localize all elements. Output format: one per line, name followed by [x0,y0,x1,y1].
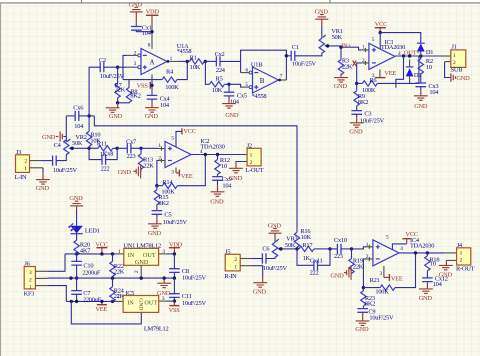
ground GND below Cx9 [210,192,224,206]
wire node to IC2 pin1 [141,147,159,149]
wire J3 pin1 to ground [42,168,44,173]
ground port GND beside VR2 [42,131,66,141]
connector J1 [451,43,466,73]
svg-text:R4: R4 [166,68,174,75]
svg-text:GND: GND [456,75,470,82]
resistor R23 [361,288,376,309]
svg-text:2: 2 [453,60,456,66]
svg-text:10uF/25V: 10uF/25V [369,315,394,322]
node feedback junction IC2 [155,184,158,187]
svg-text:IC5: IC5 [125,290,134,297]
pin 4 IC4 output [399,252,444,254]
ground GND above LED1 [69,195,83,211]
ground GND below Cx12 [419,289,433,302]
svg-text:GND: GND [253,289,267,296]
node C7 VEE junction [75,300,78,303]
node C1 junction [285,54,288,57]
node UN1 gnd junction [140,276,143,279]
wire C8 to mid rail [173,272,175,278]
node Cx6 junction [87,114,90,117]
wire Cx9 to ground [217,180,219,185]
svg-text:3: 3 [372,73,375,79]
pin Cx1 top [135,22,137,26]
svg-text:R5: R5 [216,75,223,82]
svg-text:Cx2: Cx2 [215,51,225,58]
resistor R4 feedback [123,61,187,91]
svg-text:GND: GND [138,298,144,310]
svg-text:22K: 22K [143,162,154,169]
capacitor C1 [286,44,316,68]
wire long run to right channel [94,116,297,232]
pin 1 J6 [35,285,47,287]
resistor R8 [118,80,141,103]
ground GND below J5 [253,283,267,296]
resistor R3 [338,47,352,77]
wire J6 pin2 mid rail [48,277,175,279]
resistor R24 [110,278,125,302]
wire output to J2 [219,154,243,156]
wire pin2 to feedback node [363,259,366,288]
svg-text:8K2: 8K2 [365,301,375,308]
svg-text:1: 1 [118,249,121,255]
svg-text:3: 3 [171,169,174,175]
wire VR2 wiper to input row [71,147,74,150]
power port VEE IC4 [384,274,403,282]
op-amp IC1 [362,39,405,70]
resistor R11 [89,141,117,159]
connector J5 [224,249,240,280]
resistor R9 [354,83,368,110]
svg-text:R14: R14 [162,179,173,186]
svg-text:J5: J5 [225,249,230,256]
svg-text:VEE: VEE [95,306,107,313]
wire C2 right to node [104,66,118,68]
capacitor C6 [252,246,288,272]
svg-text:2: 2 [234,257,237,263]
svg-text:KF3: KF3 [24,290,35,297]
svg-text:10: 10 [221,163,227,170]
capacitor C10 [71,254,101,277]
svg-text:GND: GND [109,113,123,120]
wire VR1 wiper to IN+ row [326,44,329,47]
capacitor C11 [169,278,206,307]
ground GND below C9 [355,321,369,333]
svg-text:10uF/25V: 10uF/25V [182,300,207,307]
pin 5 IC4 [392,244,406,250]
svg-text:C4: C4 [54,142,62,149]
sheet border top [0,2,480,4]
wire Cx4 to ground [151,99,153,102]
ground GND mid rail [157,278,171,297]
pin 6 U1B [241,72,250,74]
pin 2 IC5 [116,300,123,302]
svg-text:22K: 22K [115,87,126,94]
svg-text:A: A [150,58,155,66]
svg-text:Cx11: Cx11 [310,258,323,265]
pin 1 IC2 [159,147,166,151]
potentiometer VR3 [272,236,297,258]
ground GND above Cx1 [129,2,143,23]
svg-text:D1: D1 [426,49,433,56]
svg-text:1: 1 [250,152,253,158]
node VCC rail junction [379,31,382,34]
pin 3 IC1 [379,69,381,75]
svg-text:10: 10 [430,261,436,268]
svg-text:2: 2 [134,270,140,273]
pin 2 UN1 [140,265,142,278]
node R5/Cx5 junction [227,83,230,86]
power port VCC IC2 [182,128,196,135]
capacitor C8 [169,254,206,282]
svg-text:104: 104 [230,99,240,106]
ground GND below R7 [106,103,123,120]
svg-text:22K: 22K [342,63,353,70]
wire J4 pin2 to ground [445,259,447,262]
pin 5 IC1 [379,33,381,50]
svg-text:GND: GND [355,326,369,333]
pin 2 J4 [446,259,456,261]
capacitor Cx3 [416,83,440,96]
sheet zone tick marks [82,0,331,3]
wire Cx12 to ground [426,282,428,283]
svg-text:5: 5 [171,136,174,142]
op-amp U1A [134,43,192,75]
wire output to VEE loop [396,56,404,88]
svg-text:L-IN: L-IN [15,174,27,181]
svg-text:GND: GND [414,103,428,110]
svg-text:C3: C3 [364,111,371,118]
wire GND to VR1 top [321,26,323,34]
capacitor C5 [152,211,188,226]
node R16/R17 junction [295,247,298,250]
svg-text:10uF/25V: 10uF/25V [100,73,125,80]
capacitor Cx6 [66,104,94,130]
svg-text:2: 2 [460,258,463,264]
node R17/Cx11 junction [328,247,331,250]
svg-text:10uF/25V: 10uF/25V [292,61,317,68]
wire Cx1 bottom to VDD stem [136,30,152,32]
wire C6 to VR3 [266,257,275,258]
svg-text:10K: 10K [301,234,312,241]
power port VEE IC2 [176,170,193,181]
capacitor Cx1 [131,24,152,36]
potentiometer VR1 [319,28,343,53]
svg-text:LM79L12: LM79L12 [144,326,169,333]
wire pin2 to feedback node [357,63,362,84]
resistor R10 [86,116,101,148]
wire GND to LED1 [76,211,78,226]
svg-text:10: 10 [426,64,432,71]
svg-text:VCC: VCC [405,231,417,238]
svg-text:22K: 22K [353,263,364,270]
connector J2 [245,143,263,174]
wire C1 to VR1 [295,53,322,56]
svg-text:Cx8: Cx8 [103,150,113,157]
wire Cx5 to ground [228,96,230,98]
capacitor C4 [42,142,78,174]
pin 1 J1 [442,55,451,57]
node VCC port junction [100,252,103,255]
svg-text:OUT: OUT [144,299,157,306]
LED LED1 [68,223,100,234]
pin 3 U1A [127,66,138,68]
svg-text:OUT: OUT [143,252,156,259]
node VEE port junction [100,300,103,303]
svg-text:10uF/25V: 10uF/25V [360,118,385,125]
svg-text:100K: 100K [375,288,389,295]
connector J3 [15,149,30,181]
node output junctions IC4 [414,251,417,254]
svg-text:VCC: VCC [183,128,195,135]
svg-text:104: 104 [429,89,439,96]
pin 8 U1A [151,23,153,49]
wire C10 to mid rail [76,265,78,278]
pin 2 J1 [445,61,451,63]
svg-text:B: B [260,77,265,85]
wire VEE drop to IC5 gnd pin [71,301,141,324]
svg-text:3: 3 [29,270,32,276]
pin 3 IC4 [383,266,385,278]
svg-text:GND: GND [419,295,433,302]
svg-text:IN+: IN+ [341,42,351,49]
svg-text:J6: J6 [24,261,29,268]
connector J6 [24,261,36,298]
wire U1B feedback loop [241,50,287,80]
pin 1 J5 [240,265,251,267]
node R11/Cx8 junction [116,147,119,150]
node R24 VEE row junction [111,300,114,303]
svg-text:10K: 10K [212,87,223,94]
ground GND below J2 pin2 [229,168,243,182]
op-amp IC4 [366,237,435,266]
wire IC5 out to VSS node [167,300,174,302]
svg-text:8: 8 [148,42,151,48]
svg-text:104: 104 [160,102,170,109]
pin 2 J6 [35,277,47,279]
svg-text:GND: GND [118,169,132,176]
sheet border left [0,3,2,356]
svg-text:104: 104 [74,123,84,130]
svg-text:D2: D2 [414,72,421,79]
svg-text:R-OUT: R-OUT [456,265,475,272]
svg-text:TDA2030: TDA2030 [200,143,224,150]
node Cx7/R13 junction [139,147,142,150]
resistor R14 [157,155,205,196]
svg-text:GND: GND [229,175,243,182]
pin 7 U1B output [278,79,281,82]
power port VCC [375,21,387,32]
capacitor Cx8 parallel loop [89,148,117,172]
svg-text:U1B: U1B [251,61,262,68]
svg-text:J1: J1 [451,43,456,50]
svg-text:SUB: SUB [451,66,463,73]
svg-text:4: 4 [398,51,401,57]
resistor R19 [349,249,364,274]
svg-text:VSS: VSS [169,307,181,314]
resistor R21 [363,253,415,296]
wire J6 pin1 to VEE row [48,286,67,302]
svg-text:GND: GND [148,230,162,237]
power port VCC IC4 [402,231,417,244]
svg-text:8K2: 8K2 [130,93,140,100]
ground GND below J3 [36,180,50,193]
wire J5 pin1 to ground [252,266,263,277]
svg-text:10uF/25V: 10uF/25V [263,265,288,272]
ground GND below C3 [349,123,363,136]
pin 2 IC4 [366,257,373,261]
svg-text:1: 1 [234,265,237,271]
svg-text:50K: 50K [285,242,296,249]
wire VCC row [65,253,116,255]
op-amp U1B [245,61,278,100]
resistor R22 [110,252,125,278]
ground port GND beside R19 [330,265,351,280]
wire output to J1 [425,55,442,57]
svg-text:J3: J3 [16,149,21,156]
wire Cx2 to U1B input column [220,60,241,62]
op-amp IC2 [158,138,224,167]
ground GND below Cx3 [414,96,428,110]
ground GND below Cx4 [145,108,159,120]
resistor R20 [74,234,91,256]
diode D2 [406,60,421,84]
svg-text:22K: 22K [114,269,125,276]
resistor R12 [215,155,230,177]
capacitor C9 [357,308,394,321]
svg-text:R17: R17 [302,242,313,249]
node R10 junction [87,147,90,150]
svg-text:LED1: LED1 [85,228,100,235]
diode D1 [417,43,433,56]
node C10 mid rail junction [75,276,78,279]
pin 1 J4 [444,252,456,254]
svg-text:8K2: 8K2 [158,200,168,207]
svg-text:TDA2030: TDA2030 [410,242,434,249]
svg-text:1: 1 [460,250,463,256]
pin 2 J2 [242,161,248,163]
svg-text:7: 7 [280,73,283,79]
pin 2 IC1 [361,61,369,65]
power port VSS [137,82,152,90]
svg-text:1: 1 [453,53,456,59]
pin 3 IC5 [159,300,167,302]
svg-text:C2: C2 [99,57,106,64]
svg-text:Cx6: Cx6 [73,104,83,111]
capacitor Cx10 [330,237,352,260]
svg-text:4: 4 [200,149,203,155]
svg-text:10uF/25V: 10uF/25V [53,167,78,174]
wire VEE row [66,300,115,302]
pin 2 J3 [30,160,42,162]
wire UN1 out to VDD [167,253,174,255]
ground GND above VR1 [315,8,329,26]
svg-text:GND: GND [334,83,348,90]
capacitor C2 [99,57,125,80]
node output junction [186,60,189,63]
wire VCC rail to D1 [380,33,421,44]
pin 3 IC2 [175,168,177,173]
capacitor Cx12 [422,275,448,288]
node output junctions [402,54,405,57]
ground port GND beside R13 [118,164,141,179]
power port VCC PSU [95,241,107,254]
svg-text:*4558: *4558 [252,93,267,100]
capacitor Cx5 [224,84,247,105]
connector J4 [456,242,475,273]
power port VDD [146,9,160,23]
pin 2 J5 [240,258,251,260]
wire C2 left down the input column [89,67,100,116]
svg-text:GND: GND [210,198,224,205]
wire J2 pin2 to ground [236,161,242,164]
svg-text:3: 3 [162,249,165,255]
pin 1 J2 [243,154,247,156]
pin 1 U1A output [167,60,170,63]
potentiometer VR2 [64,134,87,155]
pin 3 J6 [35,270,47,272]
node VSS junction [150,84,153,87]
svg-text:1: 1 [170,56,173,62]
pin 5 IC2 [176,131,182,146]
pin 1 UN1 [116,253,124,255]
wire pin2 to feedback node [157,161,159,186]
svg-text:104: 104 [142,30,152,37]
node VDD junction [173,252,176,255]
resistor R18 [425,253,440,278]
svg-text:10uF/25V: 10uF/25V [163,219,188,226]
svg-text:VSS: VSS [137,83,149,90]
svg-text:R21: R21 [370,277,380,284]
power port VEE PSU [95,301,107,313]
node Cx10/R19 junction [350,247,353,250]
svg-text:GND: GND [36,185,50,192]
node output junctions IC2 [204,153,207,156]
svg-text:J2: J2 [247,143,252,150]
capacitor Cx4 [147,95,171,109]
capacitor Cx9 [212,176,232,190]
resistor R15 [154,186,169,211]
resistor R13 [138,148,154,171]
svg-text:GND: GND [330,272,344,279]
pin 2 IC2 [159,159,166,163]
wire Cx6 left to VR2 top [65,116,67,142]
svg-text:10uF/25V: 10uF/25V [182,275,207,282]
capacitor Cx7 [117,138,141,160]
svg-text:C6: C6 [262,246,269,253]
svg-text:100K: 100K [165,84,179,91]
svg-text:GND: GND [349,128,363,135]
wire C9 to ground [362,312,364,320]
svg-text:104: 104 [433,281,443,288]
svg-text:GND: GND [225,112,239,119]
resistor R7 [115,67,126,103]
resistor R6 [357,56,419,94]
wire pin2 to feedback column [123,55,127,79]
capacitor Cx11 parallel loop [297,249,330,277]
svg-text:2: 2 [250,160,253,166]
pin 2 U1A [127,54,138,56]
power port VDD PSU [169,241,183,254]
svg-text:VEE: VEE [391,275,403,282]
svg-text:C1: C1 [292,44,299,51]
svg-text:R1: R1 [190,55,197,62]
ground GND below C5 [148,224,162,237]
svg-text:VDD: VDD [146,9,160,16]
svg-text:2200uF: 2200uF [83,296,102,303]
ground GND above VR3 [268,222,282,238]
svg-text:2: 2 [117,293,120,299]
svg-text:50K: 50K [332,34,343,41]
